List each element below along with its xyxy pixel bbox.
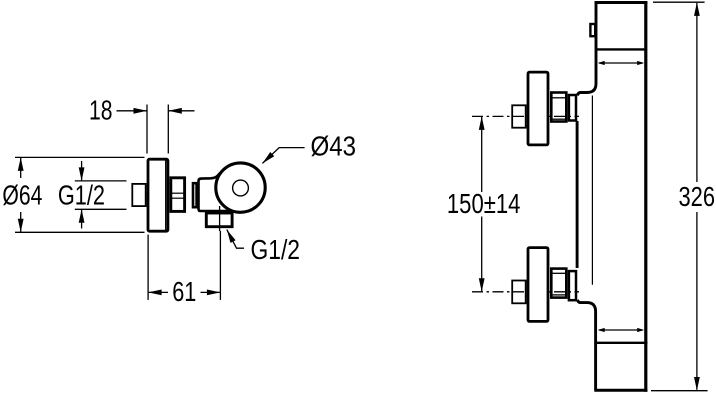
dim 18 left dim line bbox=[117, 110, 147, 112]
dim 18 left extension line bbox=[146, 105, 148, 154]
bar top edge bbox=[595, 1, 648, 4]
mounting clip notch bbox=[590, 24, 595, 36]
leader G1/2 line bbox=[227, 230, 244, 249]
flange face line bbox=[165, 160, 167, 232]
bar bottom width dim line bbox=[599, 329, 643, 331]
top union centerline bbox=[472, 115, 579, 117]
dim 18 right extension line bbox=[167, 105, 169, 154]
outlet centerline bbox=[219, 206, 221, 231]
dim G1/2 bottom extension line bbox=[75, 208, 127, 210]
dim G1/2 upper dim line bbox=[81, 161, 83, 181]
dim 61 right dim line bbox=[201, 291, 220, 293]
bar lower-left outline bbox=[577, 300, 595, 390]
bar upper-left outline bbox=[577, 3, 596, 96]
dim O64 bottom extension line bbox=[15, 231, 145, 233]
dim 61 right extension line bbox=[219, 231, 221, 300]
bottom union wall stub bbox=[512, 281, 526, 304]
valve body (left view) bbox=[199, 172, 244, 211]
dim O64 lower dim line bbox=[20, 212, 22, 232]
leader O43 arrow bbox=[260, 152, 274, 165]
bottom union escutcheon bbox=[528, 248, 548, 322]
bar bottom edge bbox=[594, 389, 647, 392]
dim 326 lower dim line bbox=[696, 212, 698, 390]
outlet port square G1/2 (left view) bbox=[206, 213, 232, 227]
escutcheon flange O64 (left view) bbox=[148, 159, 168, 231]
top union nut bbox=[551, 93, 566, 122]
dim 61 left arrow bbox=[148, 290, 162, 296]
bar top joint line bbox=[596, 48, 646, 50]
dim O64 upper dim line bbox=[20, 158, 22, 178]
dim 150 lower dim line bbox=[481, 217, 483, 292]
bottom union nut bbox=[551, 269, 566, 298]
dim O64 top extension line bbox=[15, 156, 145, 158]
dim 18 left arrow bbox=[134, 108, 148, 114]
dim 61 left extension line bbox=[147, 235, 149, 300]
dim 18 right dim line bbox=[169, 110, 195, 112]
svg-text:326: 326 bbox=[679, 181, 716, 212]
bar bottom width right arrow bbox=[637, 328, 644, 332]
top union collar bbox=[569, 95, 576, 121]
dim 18 right arrow bbox=[168, 108, 182, 114]
wall inlet stub G1/2 (left view) bbox=[132, 184, 145, 206]
dim 61 left dim line bbox=[149, 291, 168, 293]
top union nut chamfer line bbox=[551, 97, 566, 99]
svg-text:150±14: 150±14 bbox=[447, 188, 521, 219]
svg-text:Ø43: Ø43 bbox=[311, 131, 357, 162]
svg-text:G1/2: G1/2 bbox=[251, 234, 301, 265]
dim 326 bottom extension line bbox=[651, 390, 708, 392]
bar right edge bbox=[644, 2, 647, 392]
svg-text:G1/2: G1/2 bbox=[58, 180, 105, 211]
dim 326 up arrow bbox=[694, 2, 700, 16]
bottom union nut chamfer line bbox=[551, 272, 566, 274]
bar bottom width left arrow bbox=[598, 328, 605, 332]
dim G1/2 lower dim line bbox=[81, 210, 83, 229]
top union wall stub bbox=[512, 105, 526, 127]
bar bottom joint line bbox=[594, 342, 647, 344]
bar mid-left edge bbox=[576, 121, 579, 268]
dim 61 right arrow bbox=[207, 290, 221, 296]
bar tangent edge line bbox=[591, 96, 593, 285]
nut chamfer line upper bbox=[171, 192, 185, 194]
svg-text:61: 61 bbox=[172, 276, 196, 307]
svg-text:Ø64: Ø64 bbox=[2, 179, 42, 210]
dim 150 upper dim line bbox=[481, 117, 483, 192]
svg-text:18: 18 bbox=[89, 95, 113, 126]
top union escutcheon bbox=[528, 72, 548, 145]
bottom union centerline bbox=[472, 291, 579, 293]
dim 326 down arrow bbox=[694, 377, 700, 391]
top union nut lower line bbox=[551, 118, 566, 120]
dim 326 upper dim line bbox=[696, 3, 698, 182]
connection nut (left view) bbox=[171, 178, 185, 212]
dim 150 down arrow bbox=[479, 278, 485, 292]
bar top width right arrow bbox=[637, 61, 644, 65]
dim G1/2 top extension line bbox=[75, 180, 127, 182]
handle hub circle bbox=[233, 180, 249, 196]
handle circle O43 bbox=[216, 163, 265, 212]
bar top width left arrow bbox=[598, 61, 605, 65]
bottom union collar bbox=[569, 271, 576, 300]
leader G1/2 arrow bbox=[224, 228, 235, 243]
bar top width dim line bbox=[599, 62, 643, 64]
dim 150 up arrow bbox=[479, 116, 485, 129]
dim O64 down arrow bbox=[18, 219, 24, 233]
dim O64 up arrow bbox=[18, 157, 24, 171]
bottom union nut lower line bbox=[551, 294, 566, 296]
collar ring (left view) bbox=[193, 183, 197, 207]
nut chamfer line lower bbox=[171, 197, 185, 199]
dim G1/2 up arrow bbox=[79, 209, 85, 223]
dim 326 top extension line bbox=[653, 1, 705, 3]
leader O43 line bbox=[262, 148, 304, 164]
dim G1/2 down arrow bbox=[79, 167, 85, 181]
